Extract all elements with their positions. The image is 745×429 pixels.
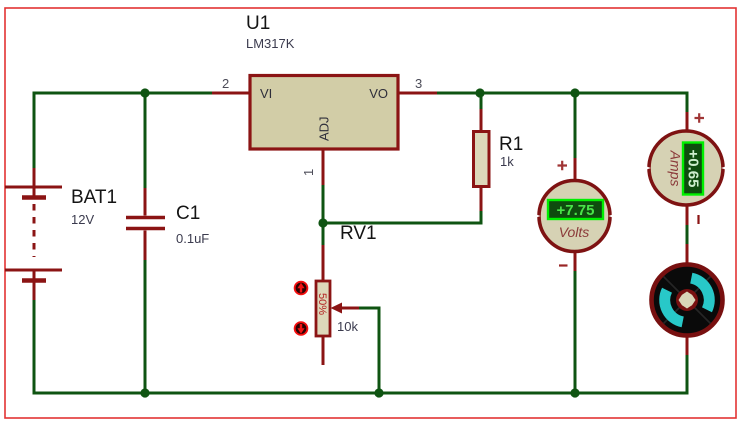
- svg-text:C1: C1: [176, 203, 200, 224]
- svg-text:ADJ: ADJ: [317, 116, 332, 141]
- svg-text:12V: 12V: [71, 212, 94, 227]
- svg-text:Amps: Amps: [668, 150, 684, 187]
- svg-text:0.1uF: 0.1uF: [176, 231, 209, 246]
- wire voltmeter bottom branch: [574, 270, 577, 393]
- node junction R1 top: [475, 88, 484, 97]
- resistor R1: [474, 109, 524, 211]
- voltmeter: [537, 158, 613, 271]
- svg-text:+0.65: +0.65: [685, 150, 702, 188]
- wire R1 bottom to ADJ node: [323, 210, 483, 225]
- svg-text:10k: 10k: [337, 319, 358, 334]
- wire voltmeter top branch: [574, 93, 577, 160]
- wire ADJ pin to node: [322, 184, 325, 223]
- svg-text:VI: VI: [260, 86, 272, 101]
- potentiometer RV1: [294, 223, 377, 365]
- wire ammeter top branch: [686, 92, 689, 115]
- node junction C1 bottom: [140, 388, 149, 397]
- wire left vertical from top rail to battery: [33, 92, 36, 169]
- svg-text:LM317K: LM317K: [246, 36, 295, 51]
- svg-text:+7.75: +7.75: [557, 202, 595, 219]
- node junction voltmeter top: [570, 88, 579, 97]
- wire ammeter to motor segment: [686, 224, 689, 245]
- svg-text:U1: U1: [246, 13, 270, 34]
- svg-text:1: 1: [301, 169, 316, 176]
- capacitor C1: [126, 188, 209, 260]
- svg-text:R1: R1: [499, 134, 523, 155]
- svg-text:BAT1: BAT1: [71, 187, 117, 208]
- node junction C1 top: [140, 88, 149, 97]
- wire top rail left segment: [34, 92, 212, 95]
- wire battery bottom to bottom rail: [33, 300, 36, 395]
- motor: [652, 244, 723, 355]
- wire C1 bottom branch: [144, 258, 147, 393]
- svg-text:3: 3: [415, 76, 422, 91]
- wire node to RV1 top: [322, 223, 325, 247]
- svg-text:50%: 50%: [316, 293, 328, 315]
- wire VO output net (top rail right): [437, 92, 689, 95]
- node junction RV1 wiper bottom: [374, 388, 383, 397]
- wire R1 top stub green: [480, 93, 483, 111]
- wire bottom rail: [33, 392, 689, 395]
- node junction ADJ: [318, 218, 327, 227]
- wire motor bottom to rail: [686, 354, 689, 395]
- svg-text:RV1: RV1: [340, 223, 377, 244]
- battery BAT1: [5, 168, 117, 300]
- svg-text:VO: VO: [369, 86, 388, 101]
- svg-text:Volts: Volts: [559, 224, 590, 240]
- wire C1 top branch: [144, 93, 147, 190]
- regulator U1 LM317K: [212, 13, 437, 185]
- wire RV1 wiper to bottom rail: [358, 307, 379, 394]
- svg-text:1k: 1k: [500, 154, 514, 169]
- node junction voltmeter bottom: [570, 388, 579, 397]
- ammeter: [647, 112, 725, 225]
- svg-text:2: 2: [222, 76, 229, 91]
